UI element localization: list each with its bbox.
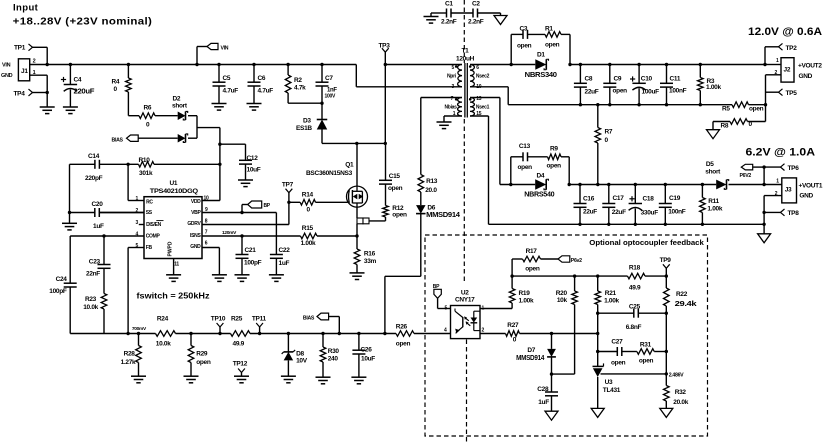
svg-text:TP4: TP4: [14, 91, 26, 98]
ground C12: [238, 180, 253, 187]
svg-text:C8: C8: [585, 75, 593, 82]
label GND J3: [799, 193, 813, 200]
test point TP6: [762, 164, 799, 172]
resistor R20: [556, 274, 578, 374]
svg-text:+18..28V (+23V nominal): +18..28V (+23V nominal): [13, 16, 153, 27]
wire R24-R25: [176, 333, 231, 335]
svg-text:R13: R13: [426, 178, 438, 185]
svg-text:100nF: 100nF: [668, 209, 686, 216]
resistor R1: [545, 26, 561, 49]
pin 2 J1: [30, 59, 48, 65]
svg-text:1uF: 1uF: [538, 399, 549, 406]
svg-text:29.4k: 29.4k: [675, 301, 697, 308]
ground C28 secondary: [545, 411, 558, 420]
wire C13-R9: [528, 156, 548, 158]
capacitor C28: [537, 374, 558, 411]
svg-text:R25: R25: [231, 315, 243, 322]
label 6.2V output rating: [746, 146, 816, 158]
IC U1 outline: [144, 197, 202, 259]
svg-text:C17: C17: [613, 195, 625, 202]
svg-text:C21: C21: [245, 247, 257, 254]
T1 bias winding Nbias: [445, 96, 472, 117]
svg-text:NBRS540: NBRS540: [524, 192, 554, 199]
svg-text:D3: D3: [303, 118, 311, 125]
pin 1 RC: [128, 196, 153, 205]
svg-text:240: 240: [328, 355, 339, 362]
svg-text:R10: R10: [139, 157, 151, 164]
wire R1 riser: [561, 34, 570, 64]
pin 7 ISNS: [190, 229, 242, 239]
optocoupler U2: [451, 290, 481, 339]
net tag BP U2: [433, 284, 442, 309]
svg-text:10k: 10k: [557, 297, 568, 304]
svg-text:open: open: [613, 88, 628, 95]
resistor R28: [121, 332, 142, 376]
svg-text:10uF: 10uF: [361, 356, 375, 363]
capacitor C11: [660, 63, 687, 107]
svg-text:10.0k: 10.0k: [83, 304, 98, 311]
wire R22 bottom down: [665, 313, 667, 385]
svg-text:VDD: VDD: [191, 199, 201, 205]
svg-text:C27: C27: [611, 338, 623, 345]
capacitor C4: [61, 63, 95, 107]
svg-text:22nF: 22nF: [86, 270, 100, 277]
svg-text:P6V2: P6V2: [740, 173, 752, 179]
svg-text:220uF: 220uF: [74, 89, 96, 96]
resistor R13: [418, 98, 438, 206]
capacitor C17: [602, 183, 626, 226]
svg-text:DIS/EN: DIS/EN: [146, 222, 162, 228]
wire R20 to D7 node: [552, 373, 575, 375]
capacitor C24: [49, 276, 76, 334]
resistor R6: [128, 105, 177, 129]
wire COMP left down: [69, 236, 71, 283]
svg-text:R23: R23: [85, 296, 97, 303]
resistor R15: [242, 225, 357, 247]
wire TL431 anode: [597, 377, 599, 408]
svg-text:R15: R15: [302, 225, 314, 232]
node C20 ground: [68, 211, 71, 224]
ground T1 pin1: [437, 122, 452, 129]
dashed box optional optocoupler feedback: [425, 235, 708, 436]
svg-text:R29: R29: [196, 350, 208, 357]
capacitor C16: [574, 183, 598, 226]
test point TP1: [14, 44, 33, 52]
resistor R17: [512, 248, 558, 272]
svg-text:open: open: [518, 164, 533, 171]
node R10 tap: [218, 163, 221, 166]
wire T1 pin15: [470, 116, 489, 224]
wire to J2 pin1: [765, 64, 781, 66]
diode D4: [524, 173, 554, 199]
ground C5: [212, 104, 227, 111]
svg-text:11: 11: [174, 262, 179, 268]
svg-text:RC: RC: [146, 199, 153, 205]
svg-text:120mV: 120mV: [222, 230, 237, 236]
ground SS node: [62, 223, 77, 230]
ground R16: [350, 273, 365, 280]
net tag P6v2 feedback: [558, 256, 582, 264]
svg-text:33m: 33m: [364, 258, 377, 265]
svg-text:TL431: TL431: [603, 387, 621, 394]
svg-text:VBP: VBP: [191, 210, 201, 216]
node R31 right: [665, 350, 668, 353]
net tag BIAS input: [112, 135, 139, 144]
node C12 tap: [218, 143, 221, 146]
svg-text:1uF: 1uF: [93, 223, 104, 230]
node 12V out: [763, 63, 766, 66]
capacitor C21: [236, 234, 262, 274]
diode D5: [705, 161, 728, 189]
svg-text:open: open: [196, 359, 211, 366]
pin 2 U2: [480, 327, 506, 333]
svg-text:TP2: TP2: [786, 45, 798, 52]
resistor R8: [713, 119, 766, 130]
ground D8: [281, 376, 296, 383]
svg-text:R32: R32: [675, 389, 687, 396]
svg-text:22uF: 22uF: [585, 89, 599, 96]
svg-text:BP: BP: [264, 203, 271, 209]
svg-text:22uF: 22uF: [612, 209, 626, 216]
capacitor C7: [316, 63, 338, 103]
capacitor C5: [213, 63, 239, 104]
wire J3 pin2 down: [763, 196, 765, 225]
svg-text:GDRV: GDRV: [187, 221, 201, 227]
svg-text:1.00k: 1.00k: [519, 297, 534, 304]
node R21 C25: [596, 312, 599, 315]
wire T1 pin13: [470, 98, 535, 185]
wire R12 to source: [369, 220, 386, 222]
svg-text:R14: R14: [302, 192, 314, 199]
svg-text:J1: J1: [21, 68, 28, 75]
capacitor C27: [598, 338, 626, 366]
capacitor C18: [629, 183, 659, 226]
resistor R19: [509, 276, 534, 308]
svg-text:TP8: TP8: [788, 210, 800, 217]
svg-text:1.27k: 1.27k: [121, 359, 136, 366]
svg-text:open: open: [392, 211, 407, 218]
svg-text:100pF: 100pF: [49, 288, 67, 295]
svg-text:1.00k: 1.00k: [707, 205, 722, 212]
svg-text:Nsec2: Nsec2: [476, 74, 490, 80]
svg-text:open: open: [388, 185, 403, 192]
svg-text:120uH: 120uH: [456, 56, 475, 63]
wire J1 pin1 down: [46, 75, 48, 107]
capacitor C13: [518, 143, 533, 171]
svg-text:301k: 301k: [139, 170, 153, 177]
svg-text:TPS40210DGQ: TPS40210DGQ: [150, 188, 198, 195]
svg-text:BSC360N15NS3: BSC360N15NS3: [306, 170, 352, 177]
node D6 rail junction: [383, 332, 386, 335]
svg-text:BIAS: BIAS: [303, 315, 315, 321]
svg-text:C12: C12: [247, 155, 259, 162]
capacitor C20: [70, 201, 145, 230]
svg-text:C23: C23: [89, 258, 101, 265]
svg-text:100uF: 100uF: [642, 89, 660, 96]
capacitor C6: [248, 63, 274, 104]
svg-text:GND: GND: [1, 73, 13, 79]
svg-text:ISNS: ISNS: [190, 233, 201, 239]
ground 6.2V secondary: [758, 224, 771, 243]
capacitor C8: [574, 63, 599, 107]
svg-text:C15: C15: [389, 173, 401, 180]
node C27 junction: [596, 350, 599, 353]
node RC junction: [126, 163, 129, 201]
wire C14 left down: [69, 164, 71, 212]
wire R17 riser: [511, 259, 513, 276]
node J2 return: [764, 103, 767, 106]
wire Vin rail: [47, 64, 356, 66]
svg-text:C28: C28: [537, 386, 549, 393]
T1 core: [465, 63, 467, 118]
pin 1 J3: [764, 178, 782, 184]
wire FB down: [126, 248, 129, 336]
svg-text:Optional optocoupler feedbac: Optional optocoupler feedback: [589, 238, 704, 247]
ground C21: [235, 275, 250, 282]
resistor R4: [112, 63, 132, 116]
svg-text:R18: R18: [629, 265, 641, 272]
label +VOUT1: [799, 183, 823, 190]
capacitor C26: [352, 332, 375, 377]
ground C26: [351, 377, 366, 384]
svg-text:R22: R22: [676, 291, 688, 298]
resistor R7: [595, 103, 613, 186]
node R22 C25: [665, 312, 668, 315]
diode D1: [525, 52, 557, 79]
wire bottom rail left: [70, 333, 155, 335]
wire R26 to U2: [414, 333, 451, 335]
title optional optocoupler feedback: [589, 238, 704, 247]
svg-text:R9: R9: [550, 145, 558, 152]
svg-text:R21: R21: [605, 290, 617, 297]
capacitor C19: [659, 183, 686, 226]
svg-text:C7: C7: [325, 75, 333, 82]
resistor R21: [595, 274, 620, 313]
svg-text:C9: C9: [614, 75, 622, 82]
svg-text:100nF: 100nF: [669, 88, 687, 95]
wire switch node to T1 pin5: [385, 64, 462, 66]
svg-text:1uF: 1uF: [279, 260, 290, 267]
diode D3: [296, 103, 327, 143]
svg-text:R1: R1: [545, 26, 553, 33]
pin 5 U2: [438, 305, 451, 311]
svg-text:PWPD: PWPD: [168, 241, 174, 256]
svg-text:R6: R6: [144, 105, 152, 112]
capacitor C3: [517, 26, 532, 50]
resistor R30: [320, 332, 339, 377]
wire U1 GND down: [218, 248, 220, 275]
wire R25 right: [250, 333, 396, 335]
svg-text:T1: T1: [462, 48, 470, 55]
svg-text:+VOUT2: +VOUT2: [798, 63, 822, 70]
svg-text:TP10: TP10: [211, 315, 226, 322]
transformer T1 label: [456, 48, 475, 63]
svg-text:C6: C6: [258, 75, 266, 82]
wire D7 anode down: [550, 357, 553, 376]
svg-text:C2: C2: [472, 1, 480, 8]
svg-text:J3: J3: [785, 187, 792, 194]
node TP1/J1 junction: [46, 63, 49, 66]
svg-text:Nsec1: Nsec1: [476, 105, 490, 111]
svg-text:10V: 10V: [296, 358, 308, 365]
wire T1 pin7: [421, 97, 462, 99]
svg-text:2: 2: [33, 59, 36, 65]
svg-text:D6: D6: [427, 205, 435, 212]
resistor R12: [383, 184, 407, 221]
test point TP4: [14, 89, 48, 97]
pin 3 DIS/EN: [136, 220, 164, 228]
svg-text:Q1: Q1: [345, 162, 354, 169]
wire D5 to J3: [729, 184, 765, 186]
test point TP9: [660, 257, 672, 278]
diode D2: [172, 96, 188, 120]
label 120mV: [222, 230, 237, 236]
svg-text:open: open: [639, 357, 654, 364]
svg-text:R31: R31: [640, 341, 652, 348]
svg-text:TP1: TP1: [14, 45, 26, 52]
net tag P6V2 output: [740, 164, 765, 179]
T1 secondary winding Nsec1: [470, 96, 490, 117]
diode D6: [416, 205, 460, 219]
zener diode D8: [282, 332, 308, 376]
svg-text:FB: FB: [146, 245, 153, 251]
svg-text:100pF: 100pF: [244, 260, 262, 267]
svg-text:R19: R19: [519, 290, 531, 297]
wire R9 riser: [561, 157, 569, 185]
node TP3 junction: [384, 63, 387, 66]
snubber riser left 6.2V: [509, 157, 523, 186]
svg-text:open: open: [611, 360, 626, 367]
ground C6: [247, 104, 262, 111]
capacitor C9: [603, 63, 627, 107]
svg-text:R30: R30: [328, 348, 340, 355]
net tag BP: [240, 201, 271, 214]
transistor Q1: [306, 143, 368, 218]
svg-text:C25: C25: [629, 304, 641, 311]
diode bias: [138, 134, 197, 143]
test point TP5: [766, 89, 798, 97]
svg-text:MMSD914: MMSD914: [516, 355, 544, 362]
svg-text:1.00k: 1.00k: [301, 240, 316, 247]
svg-text:6.8nF: 6.8nF: [626, 324, 642, 331]
pin 5 FB: [128, 243, 152, 251]
label 700mV: [132, 326, 147, 332]
svg-text:49.9: 49.9: [233, 340, 245, 347]
snubber riser left 12V: [510, 34, 524, 66]
svg-text:GND: GND: [190, 244, 201, 250]
node D7 junction: [550, 332, 553, 335]
svg-text:C19: C19: [669, 195, 681, 202]
svg-text:COMP: COMP: [146, 233, 161, 239]
wire T1 pin10: [470, 87, 508, 105]
ground R32 secondary: [660, 408, 673, 417]
svg-text:TP9: TP9: [660, 257, 672, 264]
wire TL431 ref: [601, 372, 669, 375]
net tag BIAS bottom: [303, 313, 341, 335]
wire T1 pin1 to ground: [444, 116, 462, 122]
svg-text:20.0: 20.0: [425, 187, 437, 194]
svg-text:+VOUT1: +VOUT1: [799, 183, 823, 190]
pin 10 VDD: [191, 195, 220, 205]
pin 2 SS: [100, 208, 153, 216]
svg-text:TP6: TP6: [788, 165, 800, 172]
pin 2 J3: [764, 191, 782, 197]
resistor R22: [664, 276, 697, 313]
svg-text:4.7uF: 4.7uF: [223, 88, 239, 95]
svg-text:C3: C3: [520, 26, 528, 33]
svg-text:700mV: 700mV: [132, 326, 147, 332]
svg-text:R28: R28: [124, 350, 136, 357]
capacitor C1: [431, 1, 473, 26]
resistor R18: [628, 265, 667, 292]
test point TP2: [765, 43, 797, 64]
svg-text:GND: GND: [799, 193, 813, 200]
ground J1: [40, 107, 55, 114]
resistor R5: [722, 102, 766, 113]
pin 9 VBP: [191, 207, 276, 216]
svg-text:D8: D8: [296, 350, 304, 357]
svg-text:C24: C24: [56, 276, 68, 283]
connector J1: [18, 59, 29, 81]
svg-text:4.7k: 4.7k: [294, 85, 306, 92]
svg-text:TP11: TP11: [252, 315, 267, 322]
svg-text:R11: R11: [708, 198, 719, 205]
connector J2: [781, 58, 794, 82]
label +VOUT2: [798, 63, 822, 70]
wire J2 pin2 down: [765, 75, 767, 122]
pin 8 GDRV: [187, 218, 289, 227]
capacitor C23: [86, 236, 111, 294]
resistor R3: [698, 63, 722, 107]
test point TP3: [379, 43, 391, 65]
wire R2-C7 bottom: [288, 102, 324, 105]
svg-text:100V: 100V: [325, 94, 336, 100]
svg-text:220pF: 220pF: [85, 175, 103, 182]
node D4 cathode: [568, 183, 571, 186]
svg-text:R5: R5: [722, 106, 730, 113]
svg-text:D4: D4: [537, 173, 545, 180]
svg-text:ES1B: ES1B: [296, 125, 312, 132]
svg-text:BP: BP: [433, 284, 440, 290]
wire P6V2 node down: [762, 167, 765, 186]
resistor R25: [231, 315, 251, 347]
wire TL431 cathode riser: [596, 313, 599, 366]
svg-text:open: open: [396, 340, 411, 347]
resistor R24: [156, 315, 176, 347]
svg-text:C16: C16: [583, 195, 595, 202]
ground U1 GND: [212, 275, 227, 282]
wire C3-R1: [528, 33, 546, 35]
svg-text:22uF: 22uF: [583, 208, 597, 215]
svg-text:TP12: TP12: [233, 360, 248, 367]
svg-text:R17: R17: [526, 248, 538, 255]
svg-text:10uF: 10uF: [247, 167, 261, 174]
svg-text:open: open: [545, 42, 560, 49]
node feedback bus left: [510, 274, 513, 277]
ground U1 pad: [166, 275, 181, 282]
capacitor C2: [468, 1, 501, 26]
svg-text:Npri: Npri: [447, 74, 457, 80]
label GND J2: [799, 73, 813, 80]
svg-text:C18: C18: [643, 195, 655, 202]
title input voltage range: [13, 16, 153, 27]
svg-text:VIN: VIN: [221, 45, 229, 51]
svg-text:Input: Input: [13, 2, 39, 13]
label 2.486V: [669, 372, 684, 378]
svg-text:C1: C1: [445, 1, 453, 8]
svg-text:49.9: 49.9: [629, 284, 641, 291]
ground C1: [424, 13, 439, 23]
